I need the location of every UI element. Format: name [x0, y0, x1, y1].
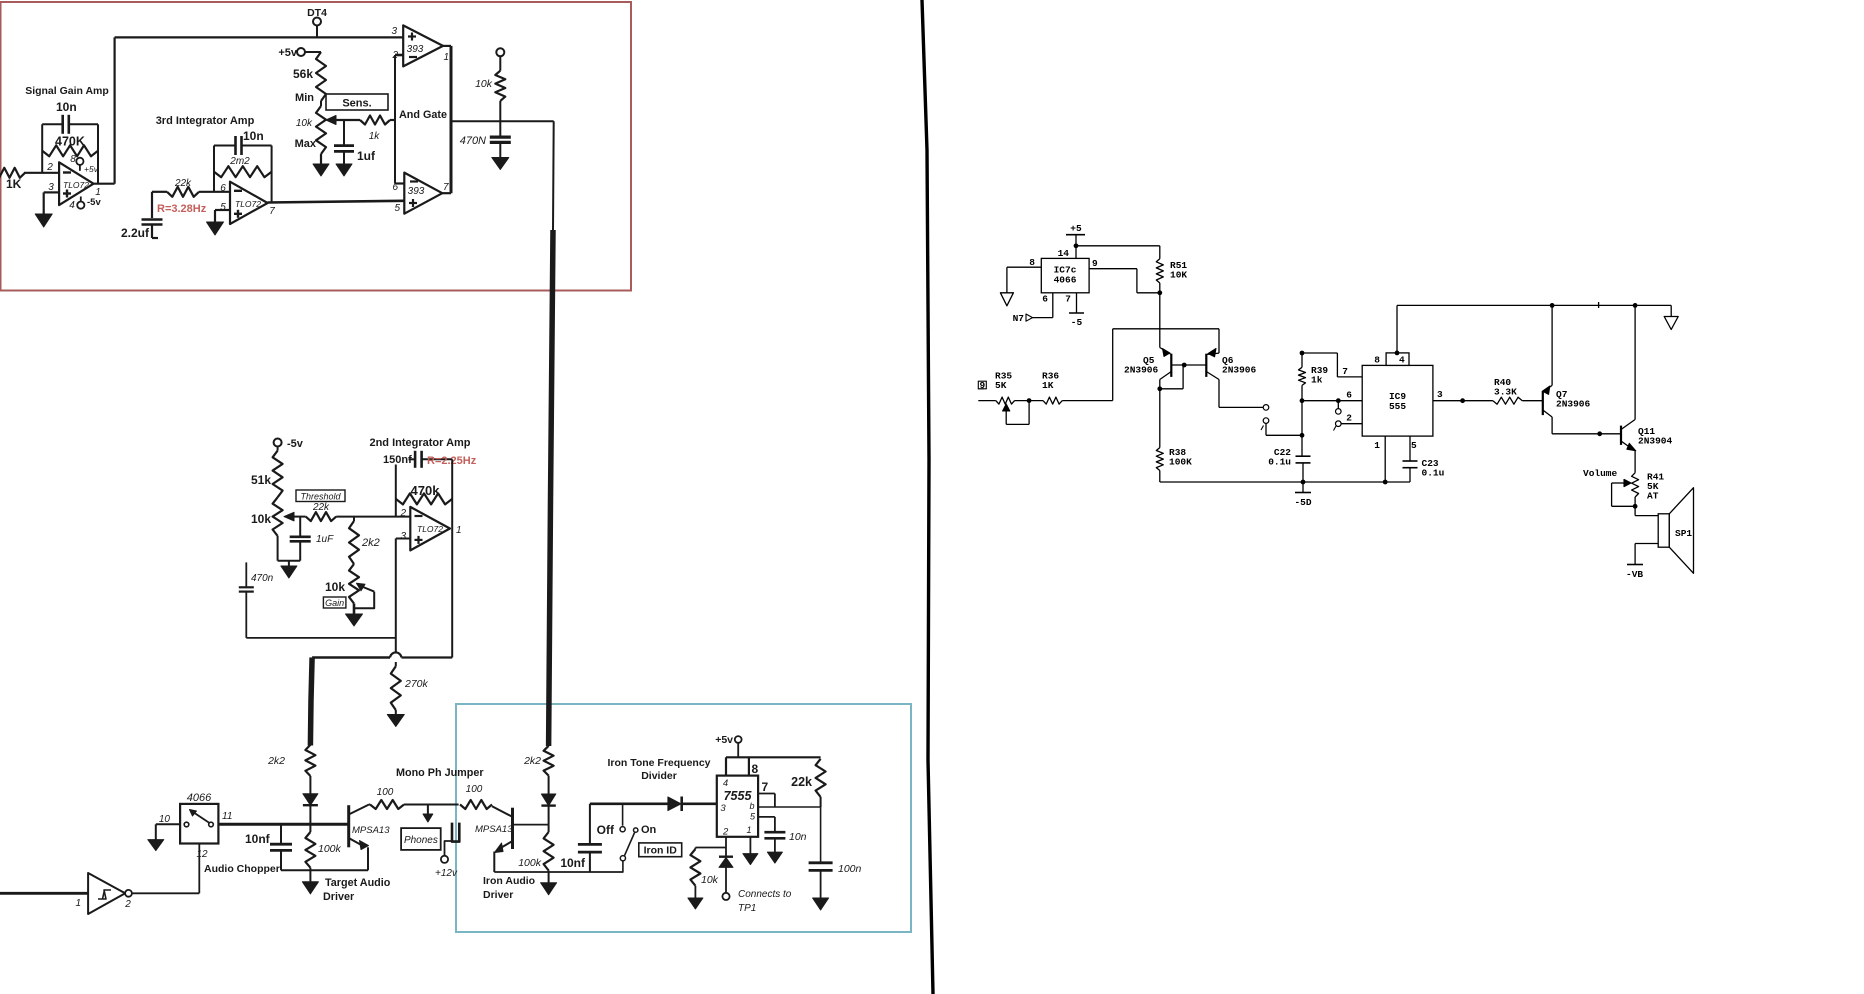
label 22k iron [791, 775, 812, 789]
svg-text:10n: 10n [243, 129, 264, 143]
svg-text:TP1: TP1 [738, 903, 756, 914]
label 10n [56, 100, 77, 114]
svg-text:11: 11 [222, 811, 232, 822]
svg-text:2k2: 2k2 [361, 537, 380, 549]
node R51 bottom [1157, 283, 1162, 295]
transistor Q6 2N3906 [1206, 348, 1219, 407]
label Volume [1583, 468, 1618, 479]
label And Gate [399, 109, 447, 121]
capacitor 10n 7555 [764, 832, 785, 852]
svg-text:4: 4 [723, 778, 728, 789]
label pin2 U3 [399, 508, 406, 519]
wire and-gate out [451, 120, 554, 122]
capacitor C22 [1296, 456, 1311, 482]
potentiometer 10k sens [316, 101, 326, 154]
transistor Q5 2N3906 [1160, 348, 1172, 389]
svg-text:4: 4 [1399, 355, 1405, 366]
svg-text:6: 6 [1346, 390, 1352, 401]
label pin1 U3 [456, 525, 462, 536]
svg-text:5: 5 [220, 202, 226, 213]
label pin 6 U2 [220, 183, 226, 194]
resistor 100 b [460, 800, 492, 809]
label R51 [1170, 260, 1187, 281]
svg-text:Min: Min [295, 92, 314, 104]
svg-text:Volume: Volume [1583, 468, 1618, 479]
svg-text:10k: 10k [701, 874, 719, 886]
box Sens. [326, 94, 388, 110]
svg-text:2: 2 [124, 899, 131, 910]
wire U2 feedback left [213, 146, 215, 192]
label Min [295, 92, 314, 104]
svg-text:3: 3 [1437, 389, 1443, 400]
svg-text:b: b [750, 801, 755, 811]
label Target Audio [325, 877, 391, 889]
wire 22k to 100n [820, 807, 822, 863]
label 1k [369, 131, 381, 142]
ground arrow IC7c [1000, 293, 1013, 306]
label R=2.25Hz [427, 455, 477, 467]
svg-text:Iron Tone Frequency: Iron Tone Frequency [607, 757, 710, 769]
svg-text:2.2uf: 2.2uf [121, 226, 150, 240]
wire pot bottom 2nd [278, 536, 301, 561]
svg-text:Driver: Driver [483, 889, 513, 901]
label Audio Chopper [204, 863, 280, 875]
resistor 2k2 target [305, 745, 315, 776]
ground 10n [767, 852, 782, 863]
terminal pullup [496, 48, 504, 56]
resistor 1k wiper [360, 116, 390, 125]
power -VB [1626, 565, 1643, 581]
resistor 100k target [305, 824, 315, 870]
wire pin6 line [758, 806, 821, 808]
gain wiper [354, 583, 374, 608]
label Off [597, 823, 615, 837]
svg-text:On: On [641, 824, 657, 836]
svg-text:+12v: +12v [435, 868, 458, 879]
svg-text:2k2: 2k2 [267, 755, 285, 767]
diode tp1 [719, 848, 733, 894]
transistor MPSA13 2 [492, 806, 513, 872]
svg-text:2k2: 2k2 [523, 755, 541, 767]
svg-text:Divider: Divider [641, 770, 677, 782]
svg-text:4066: 4066 [1054, 275, 1077, 286]
label pin10 [159, 814, 171, 825]
wiper R41 [1612, 479, 1636, 506]
box Iron ID [639, 843, 682, 857]
svg-text:Off: Off [597, 823, 615, 837]
svg-text:8: 8 [70, 154, 76, 165]
svg-text:150nf: 150nf [383, 454, 412, 466]
ground pin1 [743, 854, 758, 865]
wire 270k bottom [395, 710, 397, 715]
label 7555 pin7 [762, 780, 769, 794]
svg-text:6: 6 [220, 183, 226, 194]
svg-text:7: 7 [269, 206, 275, 217]
svg-text:1: 1 [444, 52, 450, 63]
label +5v pot [278, 47, 298, 59]
resistor R39 [1299, 353, 1306, 401]
wire feedback right [97, 124, 99, 183]
svg-text:100k: 100k [518, 857, 542, 869]
svg-text:2nd Integrator Amp: 2nd Integrator Amp [369, 437, 470, 449]
svg-text:0.1u: 0.1u [1422, 468, 1445, 479]
label pin 7 cmp [443, 182, 449, 193]
label R41 [1647, 472, 1664, 502]
label 22k 2nd [312, 502, 330, 513]
wire inverter input [0, 892, 88, 895]
svg-text:N7: N7 [1013, 313, 1025, 324]
svg-text:2N3904: 2N3904 [1638, 436, 1673, 447]
label 150nf [383, 454, 412, 466]
op-amp U3 TLO72 [410, 507, 450, 551]
svg-text:-5v: -5v [87, 197, 101, 208]
ic IC9 555 box [1362, 365, 1433, 436]
svg-text:TLO72: TLO72 [63, 180, 89, 190]
pin 9 IC7c [1089, 258, 1160, 293]
wire 1k to inv input [390, 119, 395, 121]
capacitor 10nf 2 [578, 804, 602, 872]
resistor 22k input [167, 187, 199, 197]
wire fb right 2nd [451, 459, 453, 529]
pin 6 IC7c net N7 [1013, 293, 1053, 324]
resistor 470K feedback [42, 145, 98, 156]
wire Q5 base tie [1157, 363, 1206, 392]
svg-text:1: 1 [1374, 440, 1380, 451]
svg-text:10nf: 10nf [560, 856, 586, 870]
blue group border box [456, 704, 911, 932]
svg-text:2: 2 [722, 827, 729, 838]
resistor 51k [273, 451, 283, 498]
label Mono Ph Jumper [396, 767, 484, 779]
capacitor 470N [490, 137, 511, 157]
diode target [303, 776, 318, 824]
svg-text:Threshold: Threshold [300, 492, 341, 502]
svg-text:10nf: 10nf [245, 832, 271, 846]
svg-text:Sens.: Sens. [342, 98, 371, 110]
speaker SP1 [1658, 488, 1693, 574]
svg-text:MPSA13: MPSA13 [475, 824, 513, 835]
ground threshold [281, 561, 297, 578]
label pin 2 cmp [391, 50, 398, 61]
terminal +5v 7555 [735, 736, 742, 757]
ic IC9 notch [1374, 353, 1409, 366]
terminal +5v pot [297, 48, 321, 56]
wire 7555 top rail [726, 757, 821, 775]
svg-text:0.1u: 0.1u [1268, 457, 1291, 468]
label R36 [1042, 371, 1059, 392]
diode iron [541, 776, 555, 825]
svg-text:470n: 470n [251, 573, 274, 584]
label DT4 [307, 7, 327, 19]
wire Q5 collector to R38 [1159, 389, 1161, 448]
wire speaker bottom [1635, 544, 1658, 565]
wire 22k to pin6 [199, 191, 230, 193]
svg-text:555: 555 [1389, 401, 1406, 412]
wire bottom rail [1160, 481, 1410, 483]
svg-text:2: 2 [399, 508, 406, 519]
wire R38 to rail [1159, 471, 1161, 483]
box Gain [323, 597, 346, 608]
svg-text:8: 8 [1374, 355, 1380, 366]
svg-text:5K: 5K [995, 380, 1007, 391]
resistor R35 pot [996, 397, 1015, 404]
wire long signal drop [549, 121, 554, 746]
wire thick drop to audio [310, 658, 312, 746]
svg-text:100k: 100k [318, 843, 342, 855]
schmitt inverter [88, 873, 132, 914]
resistor 2k2 gain [349, 517, 359, 564]
label 100 b [466, 784, 483, 795]
label 270k [404, 678, 429, 690]
svg-text:DT4: DT4 [307, 7, 327, 19]
label R35 [995, 371, 1012, 392]
wire pin1 down [749, 837, 751, 854]
svg-text:Phones: Phones [404, 835, 438, 846]
wire emitter rail Q6 [1113, 329, 1219, 353]
svg-text:8: 8 [752, 762, 759, 776]
label Q5 [1124, 355, 1159, 376]
svg-text:9: 9 [1092, 258, 1098, 269]
capacitor C23 [1403, 461, 1418, 482]
wire 22k to pin2 [336, 516, 410, 518]
resistor 470k 2nd [396, 493, 452, 504]
wire input [978, 400, 996, 402]
wire pin2 down [695, 837, 726, 848]
svg-text:Audio Chopper: Audio Chopper [204, 863, 280, 875]
resistor 22k iron [816, 759, 826, 807]
label Iron Tone Frequency [607, 757, 710, 769]
label pin 5 U2 [220, 202, 226, 213]
label pin1 inv [75, 898, 81, 909]
node +5 junction [1074, 243, 1079, 248]
ic 7555 box [717, 776, 758, 837]
label On [641, 824, 657, 836]
svg-text:And Gate: And Gate [399, 109, 447, 121]
label 2nd Integrator Amp [369, 437, 470, 449]
svg-text:100: 100 [466, 784, 483, 795]
svg-text:56k: 56k [293, 67, 313, 81]
label R38 [1169, 447, 1192, 468]
label 10k threshold [251, 512, 271, 526]
red group border box [1, 2, 632, 291]
svg-text:SP1: SP1 [1675, 528, 1692, 539]
wire pin10 gnd [156, 824, 180, 839]
svg-text:R=3.28Hz: R=3.28Hz [157, 203, 207, 215]
label 10k gain [325, 580, 345, 594]
label pin 3 cmp [391, 26, 397, 37]
headphone jack [441, 823, 459, 863]
wire input to pin 2 [24, 172, 59, 174]
svg-text:Signal Gain Amp: Signal Gain Amp [25, 85, 109, 97]
svg-text:1: 1 [456, 525, 462, 536]
svg-text:1k: 1k [1311, 375, 1323, 386]
terminal DT4 [313, 18, 321, 38]
svg-text:3rd Integrator Amp: 3rd Integrator Amp [156, 115, 255, 127]
ground below U1 [35, 214, 52, 227]
svg-text:1K: 1K [1042, 380, 1054, 391]
label MPSA13 1 [352, 825, 390, 836]
svg-text:4: 4 [69, 200, 75, 211]
resistor R38 [1156, 448, 1163, 471]
svg-text:5: 5 [1411, 440, 1417, 451]
diode series iron [668, 797, 717, 812]
label pin3 U3 [400, 531, 406, 542]
svg-text:+5v: +5v [84, 164, 99, 174]
wire pin2 IC9 [1341, 413, 1362, 424]
resistor 10k pullup [495, 56, 505, 137]
wire out return with hop [312, 652, 452, 657]
capacitor 470n [239, 562, 254, 638]
wire jumperA to C22 node [1266, 434, 1302, 436]
wiper R35 [1003, 401, 1030, 425]
box Phones [401, 828, 441, 850]
wire inverter out [132, 844, 199, 894]
input port 9 [978, 380, 986, 391]
wire gain pot bottom [353, 604, 356, 615]
svg-text:3: 3 [400, 531, 406, 542]
label Connects to [738, 889, 792, 900]
svg-text:3: 3 [720, 803, 726, 814]
svg-text:2: 2 [1346, 413, 1352, 424]
label C23 [1422, 458, 1445, 479]
op-amp U1 TLO72 [59, 162, 93, 205]
svg-text:393: 393 [407, 44, 424, 55]
svg-text:2N3906: 2N3906 [1124, 365, 1159, 376]
pin 3 IC9 wire [1433, 389, 1493, 403]
transistor MPSA13 1 [349, 805, 369, 871]
wire emitter rail 1 [281, 870, 368, 882]
svg-text:Max: Max [295, 138, 317, 150]
wire top rail right [1397, 302, 1671, 308]
power -5D [1294, 482, 1311, 508]
label 4066 [187, 792, 212, 804]
wire emitter rail 2 [494, 871, 623, 873]
svg-text:4066: 4066 [187, 792, 212, 804]
capacitor 10nf 1 [270, 824, 292, 870]
box Threshold [296, 490, 345, 502]
resistor R40 [1493, 397, 1543, 404]
ground 1uf [336, 164, 352, 176]
svg-text:470k: 470k [411, 483, 441, 498]
label 1K [6, 177, 22, 191]
comparator 393 bottom [404, 173, 442, 214]
wire 22k left [152, 192, 167, 218]
resistor 22k 2nd [306, 512, 337, 521]
label 10k sens [296, 118, 313, 129]
label 10k pullup [475, 78, 493, 90]
label 7555 pin4 [723, 778, 728, 789]
label 22k 3rd [174, 178, 192, 189]
wire pin 3 input [44, 192, 59, 214]
svg-text:100: 100 [377, 787, 394, 798]
label 7555 pin6 [750, 801, 755, 811]
wire +5 to R51 [1076, 246, 1160, 259]
svg-text:3: 3 [391, 26, 397, 37]
label 470N [460, 135, 486, 147]
label 51k [251, 473, 271, 487]
threshold wiper arrow [284, 512, 306, 521]
jumper arrow down [423, 805, 433, 823]
node R35 R36 [1027, 398, 1032, 403]
svg-text:-5D: -5D [1294, 497, 1311, 508]
resistor 270k [391, 666, 401, 710]
wire pin7 IC9 [1302, 353, 1362, 377]
ground arrow top right [1664, 305, 1678, 329]
pin 1 IC9 [1374, 436, 1385, 482]
label 100k target [318, 843, 342, 855]
capacitor 10n U2 feedback [214, 136, 272, 155]
svg-text:10k: 10k [296, 118, 313, 129]
ic 4066 chopper box [180, 804, 218, 844]
svg-text:10K: 10K [1170, 270, 1187, 281]
svg-text:2: 2 [46, 162, 53, 173]
svg-text:Connects to: Connects to [738, 889, 792, 900]
svg-text:Gain: Gain [325, 598, 344, 608]
svg-text:+5: +5 [1070, 223, 1082, 234]
svg-text:1uf: 1uf [357, 149, 376, 163]
svg-text:14: 14 [1058, 248, 1070, 259]
wire pin5 U2 [215, 210, 230, 222]
wire U1 output up [94, 37, 115, 183]
svg-text:22k: 22k [312, 502, 330, 513]
label 1uf [357, 149, 376, 163]
label 2k2 target [267, 755, 285, 767]
op-amp U2 TLO72 [230, 182, 268, 224]
label Divider [641, 770, 677, 782]
svg-text:6: 6 [1042, 294, 1048, 305]
label +5v 7555 [715, 734, 733, 746]
label 10n 3rd [243, 129, 264, 143]
ground below U2 [207, 222, 224, 235]
potentiometer 10k threshold [273, 497, 283, 536]
wire pin2 stub [395, 54, 403, 57]
wire U3 out down [451, 530, 453, 658]
pin 8 +5v terminal [70, 154, 98, 174]
label MPSA13 2 [475, 824, 513, 835]
ground pot [313, 164, 329, 176]
pin 4 -5v terminal [69, 197, 101, 212]
svg-text:22k: 22k [174, 178, 192, 189]
label 100k iron [518, 857, 542, 869]
label Iron Audio [483, 875, 535, 887]
label pin 3 [48, 182, 54, 193]
label pin 1 cmp [444, 52, 450, 63]
ground 270k [387, 715, 404, 727]
svg-text:MPSA13: MPSA13 [352, 825, 390, 836]
svg-text:12: 12 [196, 849, 208, 860]
wire base rail iron [513, 824, 549, 826]
wire iron signal [590, 802, 668, 805]
wire IC9 supply [1395, 305, 1400, 355]
svg-text:7: 7 [443, 182, 449, 193]
wire R39 bottom to C22 [1300, 401, 1305, 457]
svg-text:Driver: Driver [323, 891, 355, 903]
node C22 rail [1301, 480, 1306, 485]
pin 14 IC7c [1058, 246, 1076, 259]
wire Q7 emitter [1551, 305, 1553, 385]
capacitor 10n U1 feedback [42, 115, 98, 134]
node R39 top [1300, 351, 1305, 356]
svg-text:Mono Ph Jumper: Mono Ph Jumper [396, 767, 484, 779]
label pin 7 U2 [269, 206, 275, 217]
label 2k2 gain [361, 537, 380, 549]
label TP1 [738, 903, 756, 914]
label pin 2 [46, 162, 53, 173]
wire feedback left [41, 124, 43, 173]
label 7555 pin5 [750, 812, 756, 822]
resistor R51 [1156, 259, 1163, 283]
wire Q7 collector to Q11 base [1552, 431, 1621, 436]
